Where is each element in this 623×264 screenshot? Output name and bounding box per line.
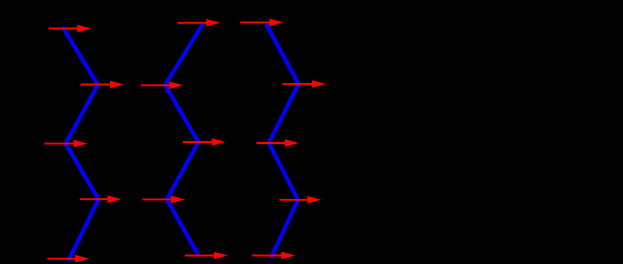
spin arrow R1 [283, 80, 326, 88]
spin arrow R0 [240, 19, 283, 27]
spin arrow L4 [47, 255, 89, 263]
wire right zigzag chain (bonds R0-R1-R2-R3-R4) [266, 24, 299, 258]
spin arrow L0 [49, 25, 92, 33]
spin arrow R3 [279, 196, 321, 204]
spin arrow M1 [141, 82, 183, 90]
spin arrow L2 [44, 140, 87, 148]
spin arrow M4 [185, 252, 228, 260]
spin arrow M0 [178, 19, 220, 27]
spin arrow L3 [80, 195, 122, 203]
spin arrow L1 [81, 81, 124, 89]
spin arrow M3 [142, 196, 185, 204]
spin arrow M2 [183, 138, 226, 146]
spin arrow R4 [252, 252, 295, 260]
wire left zigzag chain (bonds L0-L1-L2-L3-L4) [63, 27, 99, 261]
spin arrow R2 [257, 139, 300, 147]
wire middle zigzag chain (bonds M0-M1-M2-M3-M4) [165, 25, 202, 256]
